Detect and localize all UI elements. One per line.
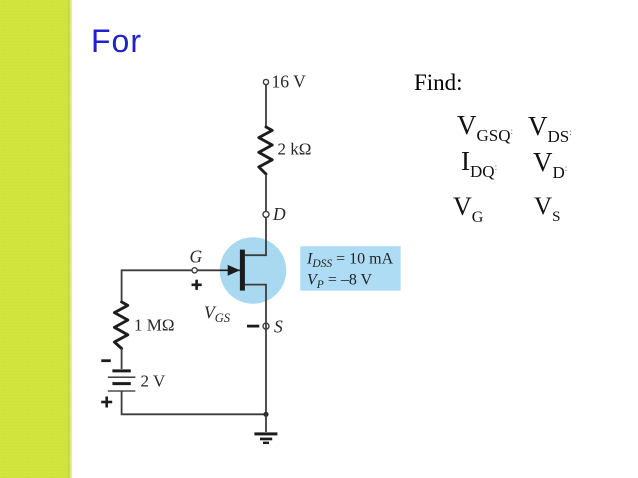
supply terminal 16V (263, 79, 268, 84)
svg-text:D: D (272, 204, 286, 224)
transistor Q1 n-channel JFET (219, 250, 266, 291)
svg-text:1 MΩ: 1 MΩ (134, 316, 175, 335)
left sidebar decorative bar (0, 0, 72, 478)
wire: 16V terminal to resistor RD (265, 85, 267, 127)
wire: gate lead to node G and left corner (122, 270, 219, 302)
quantity VS (534, 193, 560, 226)
battery 2V (108, 371, 136, 391)
quantity VD (533, 147, 567, 183)
quantity IDQ (461, 146, 497, 182)
junction node (263, 412, 268, 417)
source stub (245, 285, 266, 287)
quantity VGSQ (457, 110, 513, 146)
node G (gate terminal) (192, 268, 197, 273)
svg-text:16 V: 16 V (272, 72, 307, 92)
resistor RG 1 MOhm (114, 302, 127, 349)
plus sign (VGS polarity) (192, 280, 202, 290)
gate arrowhead (228, 265, 240, 276)
ground symbol (254, 432, 277, 444)
minus sign (battery polarity) (101, 359, 111, 362)
quantity VG (453, 192, 483, 227)
svg-text:S: S (274, 317, 283, 337)
svg-text:G: G (190, 247, 203, 267)
minus sign (VGS polarity) (247, 325, 259, 328)
svg-text:2 kΩ: 2 kΩ (278, 140, 312, 159)
wire: junction to ground (265, 414, 267, 432)
wire: resistor RD to node D (265, 174, 267, 211)
node D (263, 211, 269, 217)
channel bar (240, 250, 245, 291)
node S (263, 323, 269, 329)
title "For" (91, 23, 142, 60)
JFET highlight circle (220, 237, 287, 304)
resistor RD 2 kOhm (259, 127, 272, 174)
svg-text:2 V: 2 V (141, 372, 166, 391)
Find: heading (414, 70, 463, 96)
wire: source through node S to bottom junction (265, 287, 267, 414)
quantity VDS (528, 111, 572, 147)
info box IDSS / VP (300, 246, 400, 291)
wire: battery to bottom junction (122, 391, 266, 414)
wire: RG to battery (121, 349, 123, 370)
plus sign (battery polarity) (101, 397, 112, 408)
gate lead inside circle (219, 269, 240, 271)
svg-text:VGS: VGS (204, 303, 231, 326)
wire: node D to drain stub (245, 217, 266, 255)
